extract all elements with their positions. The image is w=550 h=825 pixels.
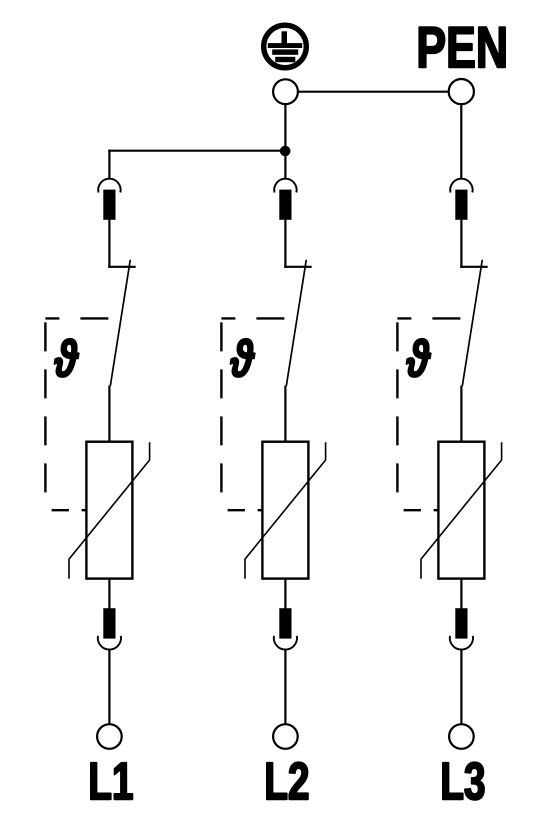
disconnect contact bar (bottom, branch 1) [103,608,115,638]
wire: PEN terminal down to branch 3 [460,100,462,180]
wire: varistor to lower disconnect (branch 2) [284,579,286,609]
disconnect contact bar (top, branch 1) [103,190,115,220]
wire: disconnect to switch (branch 1) [108,219,110,268]
wire: down to branch 1 [108,150,110,180]
thermal symbol theta (box 1) [54,339,78,377]
thermal symbol theta (box 3) [406,339,430,377]
wire: varistor to lower disconnect (branch 1) [108,579,110,609]
wire: PE terminal down through junction to branch 2 [284,100,286,180]
protective earth symbol [264,25,307,68]
switch blade (branch 1) [110,260,130,386]
dashed enclosure box 2 (thermal disconnect boundary) [221,318,286,510]
wire: disconnect to terminal L3 [460,649,462,727]
switch fixed contact (branch 1) [108,266,135,268]
switch blade (branch 3) [462,260,482,386]
wire: switch to varistor (branch 1) [108,386,110,443]
disconnect contact bar (bottom, branch 3) [455,608,467,638]
wire: disconnect to terminal L1 [108,649,110,727]
wire: switch to varistor (branch 2) [284,386,286,443]
dashed enclosure box 1 (thermal disconnect boundary) [45,318,110,510]
PEN terminal circle [449,79,474,104]
disconnect contact bar (top, branch 2) [279,190,291,220]
thermal disconnect arc (top, branch 3) [450,179,472,193]
thermal disconnect arc (top, branch 1) [98,179,120,193]
varistor RV2 diagonal stroke [245,442,326,578]
label L2 [267,762,308,799]
dashed enclosure box 3 (thermal disconnect boundary) [397,318,462,510]
varistor RV3 diagonal stroke [421,442,502,578]
wire: disconnect to switch (branch 3) [460,219,462,268]
terminal L3 [449,724,474,749]
thermal disconnect arc (top, branch 2) [274,179,296,193]
switch fixed contact (branch 2) [284,266,311,268]
switch blade (branch 2) [286,260,306,386]
label PEN [419,27,505,67]
PE terminal circle [273,79,298,104]
junction node (PE bus) [280,146,291,157]
terminal L2 [273,724,298,749]
label L1 [91,763,132,799]
terminal L1 [97,724,122,749]
varistor RV1 diagonal stroke [69,442,150,578]
wire: switch to varistor (branch 3) [460,386,462,443]
thermal symbol theta (box 2) [230,339,254,377]
wire: disconnect to switch (branch 2) [284,219,286,268]
thermal disconnect arc (bottom, branch 1) [98,636,121,650]
label L3 [443,762,484,800]
varistor RV3 body [438,442,484,579]
switch fixed contact (branch 3) [460,266,487,268]
thermal disconnect arc (bottom, branch 3) [450,636,473,650]
varistor RV2 body [262,442,308,579]
disconnect contact bar (bottom, branch 2) [279,608,291,638]
thermal disconnect arc (bottom, branch 2) [274,636,297,650]
varistor RV1 body [86,442,132,579]
wire: junction to branch 1 (horizontal) [108,150,285,152]
wire: disconnect to terminal L2 [284,649,286,727]
wire: PE terminal to PEN terminal [286,91,462,93]
wire: varistor to lower disconnect (branch 3) [460,579,462,609]
disconnect contact bar (top, branch 3) [455,190,467,220]
